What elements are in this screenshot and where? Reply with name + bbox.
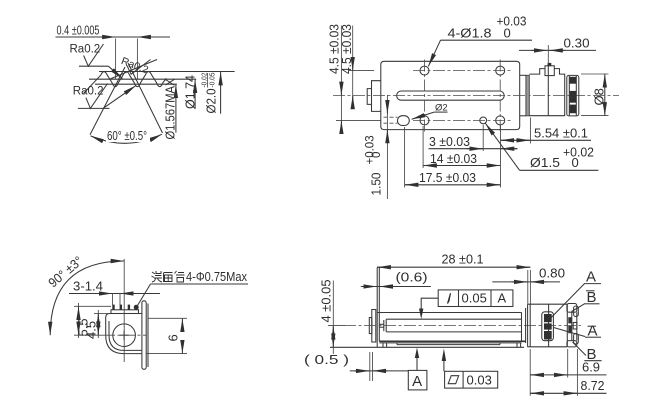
svg-text:0: 0 — [371, 152, 383, 158]
dim 6 right — [146, 318, 187, 353]
dim 90 deg arc — [45, 253, 124, 335]
dim d1.567max — [163, 78, 178, 139]
dim 4.5 — [84, 310, 108, 339]
dim 0.30 — [519, 36, 596, 64]
extension lines below top view — [387, 95, 500, 199]
feature frame parallelism 0.03 — [442, 349, 498, 389]
label Abar leader — [554, 323, 601, 340]
dim d2 leader — [412, 103, 448, 120]
dim d8 — [581, 74, 609, 116]
top view: centerline top hole row — [413, 70, 512, 72]
dim d2.0 with tolerance — [201, 72, 220, 114]
side view: motor end cap — [567, 304, 578, 347]
top view: centerline main axis — [333, 95, 619, 97]
dim d1.74 — [182, 75, 197, 109]
label Bbar leader — [572, 289, 600, 312]
end view: terminal block and pins — [111, 305, 139, 314]
dim 17.5 — [405, 170, 501, 185]
top view: left nose step — [367, 81, 381, 112]
dim 14 — [423, 151, 500, 166]
svg-text:5.54 ±0.1: 5.54 ±0.1 — [534, 126, 588, 141]
datum A box — [408, 348, 427, 391]
top view: small hole d1.5 — [480, 117, 487, 124]
svg-text:Ra0.2: Ra0.2 — [70, 44, 101, 56]
end view: mounting plate — [142, 301, 148, 370]
svg-text:4.5: 4.5 — [84, 321, 99, 339]
svg-text:1.50: 1.50 — [369, 173, 384, 196]
svg-text:4-Φ0.75Max: 4-Φ0.75Max — [186, 269, 247, 284]
svg-text:4 ±0.05: 4 ±0.05 — [319, 280, 334, 323]
dim 4-d1.8 leader and text — [428, 14, 532, 67]
side view: gearbox body — [377, 268, 525, 348]
svg-text:+0.03: +0.03 — [365, 135, 377, 164]
svg-text:-0.05: -0.05 — [210, 72, 217, 87]
side view: motor flange — [526, 304, 531, 347]
thread detail: pitch line — [89, 78, 196, 80]
top view: hole bottom-left — [420, 116, 429, 125]
label B leader — [573, 342, 602, 363]
svg-text:4-Ø1.8: 4-Ø1.8 — [448, 26, 492, 41]
dim 0.4 pitch — [56, 23, 171, 80]
note tinning 4-d0.75max — [138, 269, 249, 306]
top view: small slot d2 — [398, 116, 410, 126]
svg-text:A: A — [586, 269, 596, 286]
top view: hole top-right — [496, 66, 505, 75]
side view: centerline axis — [344, 325, 581, 327]
surface finish Ra0.2 lower left — [73, 84, 136, 109]
top view: centerline bottom hole row — [413, 119, 512, 121]
svg-text:Ø2.0: Ø2.0 — [204, 89, 219, 114]
side view: motor can — [528, 304, 568, 347]
top view: centerline right holes vertical — [499, 60, 501, 133]
svg-text:28 ±0.1: 28 ±0.1 — [442, 252, 484, 267]
top view: hole bottom-right — [496, 116, 505, 125]
end view: shaft boss circle — [113, 324, 136, 347]
svg-text:( 0.5 ): ( 0.5 ) — [304, 352, 349, 367]
side view: baseplate and feet — [330, 343, 524, 347]
thread detail: root line — [95, 83, 177, 85]
svg-text:8.72: 8.72 — [581, 378, 605, 393]
svg-text:+0.03: +0.03 — [497, 14, 527, 29]
svg-text:17.5 ±0.03: 17.5 ±0.03 — [419, 170, 476, 185]
svg-text:14 ±0.03: 14 ±0.03 — [430, 151, 477, 166]
svg-text:0.05: 0.05 — [462, 291, 487, 306]
side view: brush card — [542, 312, 554, 341]
top view: motor terminal block — [545, 63, 554, 76]
top view: hole top-left — [420, 66, 429, 75]
side view: worm shaft — [379, 319, 521, 332]
svg-text:(0.6): (0.6) — [396, 270, 428, 285]
top view: hidden lines of small slot — [384, 116, 398, 118]
svg-text:Ø8: Ø8 — [591, 88, 606, 105]
svg-text:60° ±0.5°: 60° ±0.5° — [107, 128, 147, 143]
dim 4 +-0.05 — [319, 280, 346, 355]
svg-text:Ø1.5: Ø1.5 — [530, 155, 560, 170]
top view: motor interface plate — [520, 75, 530, 116]
svg-text:0.03: 0.03 — [467, 373, 492, 388]
top view: motor end cap — [567, 75, 579, 116]
thread detail: 60 deg flank V right leg — [128, 63, 163, 133]
dim 28 — [377, 252, 530, 268]
label A leader — [550, 269, 601, 319]
dim 3-1.4 — [69, 279, 160, 306]
dim 5.54 — [500, 118, 591, 144]
dim 1.50 +0.03/0 — [365, 101, 388, 196]
thread detail: tooth profile — [84, 72, 167, 94]
dim 4.5 left pair — [327, 24, 381, 134]
dim (0.5) — [304, 352, 408, 381]
dim 6.9 — [530, 360, 606, 375]
surface finish Ra0.2 upper left — [70, 44, 123, 79]
side view: left bearing cap — [369, 310, 376, 343]
dim 3 — [429, 134, 518, 149]
end view: body outline — [106, 314, 142, 354]
top view: slot — [397, 91, 505, 100]
dim 0.80 — [492, 266, 565, 305]
svg-text:6: 6 — [166, 334, 181, 341]
svg-text:+0.02: +0.02 — [563, 145, 594, 160]
thread detail: 60 deg flank V left leg — [90, 67, 125, 135]
end view: centerlines — [103, 259, 147, 362]
svg-text:6.9: 6.9 — [582, 360, 600, 375]
dim d1.5 leader — [485, 123, 598, 170]
svg-text:0.30: 0.30 — [564, 36, 590, 51]
svg-text:3 ±0.03: 3 ±0.03 — [429, 134, 470, 149]
svg-text:A: A — [498, 291, 507, 306]
top view: centerline left holes vertical — [424, 60, 426, 133]
thread detail: crest line — [99, 71, 235, 73]
dim 60 deg arc — [91, 128, 162, 143]
feature frame runout 0.05 A — [419, 290, 513, 319]
surface finish Ra0.2 rotated — [110, 55, 157, 79]
svg-text:0.80: 0.80 — [539, 266, 565, 281]
dim (0.6) — [361, 270, 431, 287]
top view: gearbox body outline — [381, 61, 520, 129]
svg-text:0.4 ±0.005: 0.4 ±0.005 — [57, 23, 100, 38]
top view: motor can outline — [529, 64, 564, 116]
svg-text:A: A — [412, 373, 422, 390]
svg-text:3-1.4: 3-1.4 — [73, 279, 103, 294]
dim 8.72 — [530, 349, 606, 396]
dim 5.5 — [74, 303, 111, 338]
